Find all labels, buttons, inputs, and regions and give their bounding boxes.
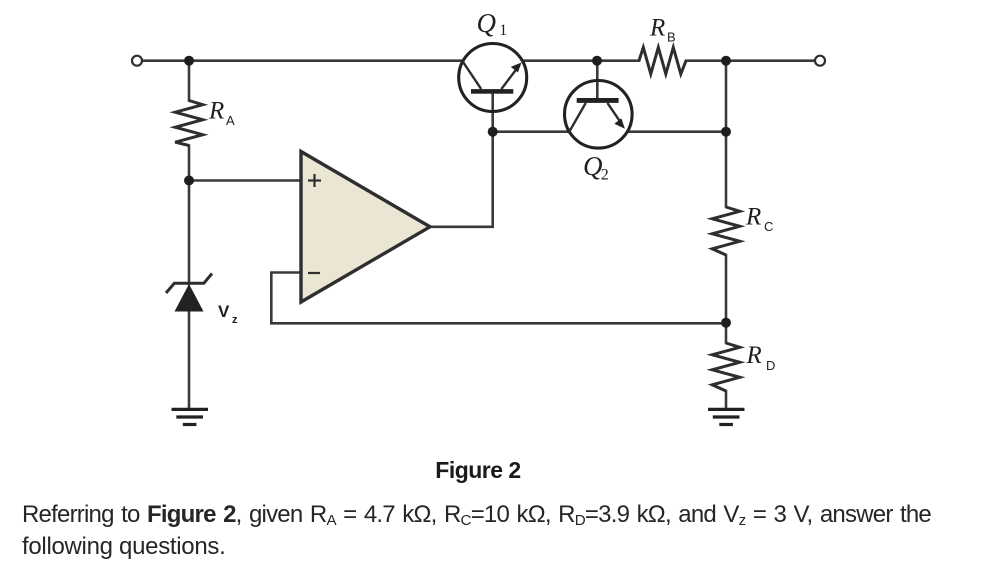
svg-text:B: B bbox=[667, 29, 676, 44]
svg-text:Q: Q bbox=[477, 8, 497, 38]
svg-text:R: R bbox=[208, 97, 224, 124]
svg-text:1: 1 bbox=[499, 22, 507, 39]
svg-text:V: V bbox=[218, 302, 230, 321]
svg-text:Q: Q bbox=[583, 151, 603, 181]
svg-text:C: C bbox=[764, 219, 773, 234]
svg-text:R: R bbox=[745, 204, 761, 231]
svg-text:2: 2 bbox=[601, 167, 609, 184]
svg-text:z: z bbox=[232, 314, 238, 326]
svg-text:R: R bbox=[649, 14, 665, 41]
svg-text:A: A bbox=[226, 113, 235, 128]
svg-text:D: D bbox=[766, 358, 775, 373]
svg-text:R: R bbox=[746, 342, 762, 369]
